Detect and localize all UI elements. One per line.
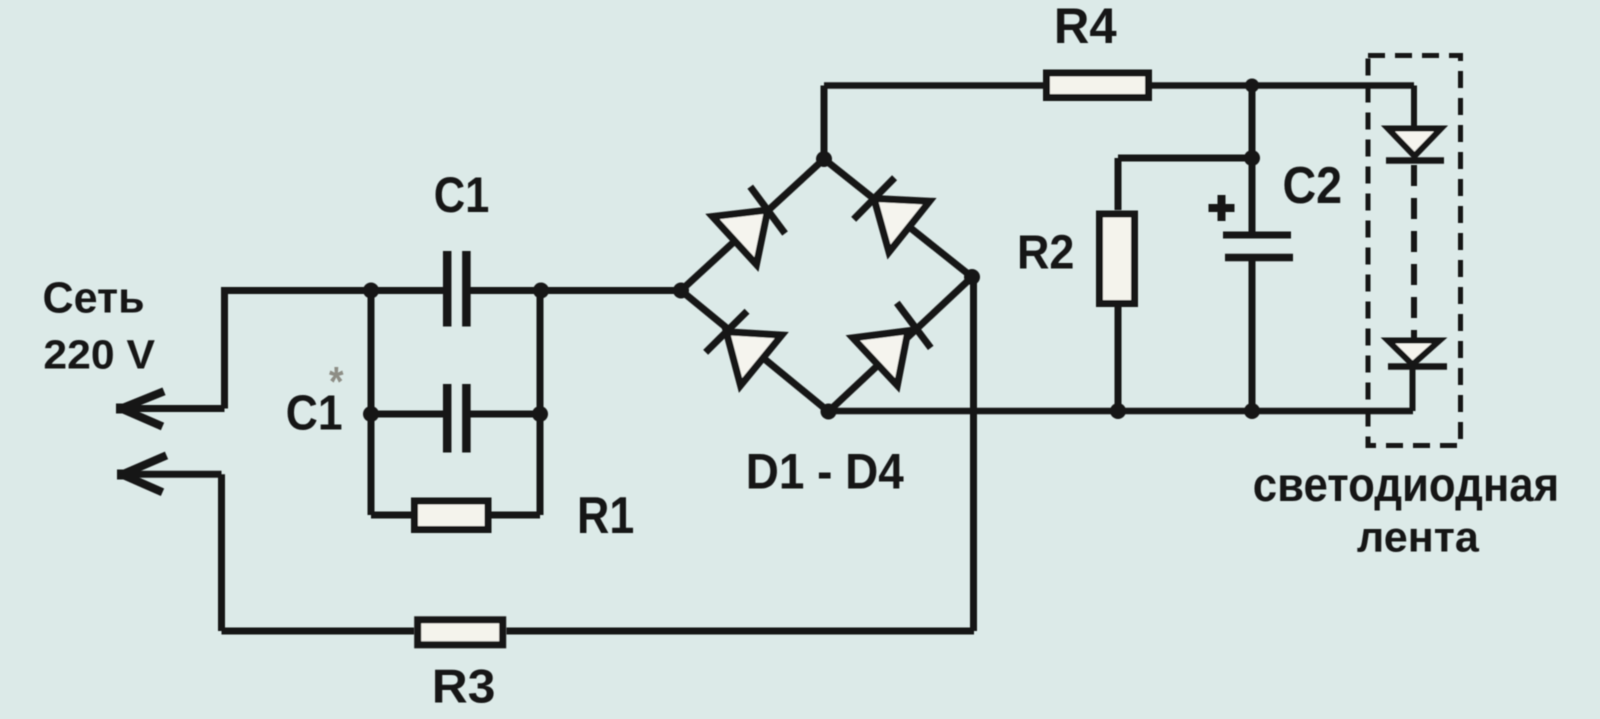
svg-text:R4: R4 (1054, 0, 1117, 54)
wire: C1 branch left vertical (368, 291, 375, 516)
node: C1 left junction (363, 283, 379, 299)
wire: R1 rail right (491, 512, 540, 519)
capacitor C1 (447, 251, 681, 327)
node: bridge top (816, 151, 832, 167)
svg-text:C1: C1 (434, 167, 490, 222)
node: bridge right (964, 269, 980, 285)
diode D4 bottom-right (853, 300, 938, 386)
svg-text:*: * (329, 359, 344, 405)
wire: C1 branch right vertical (537, 291, 544, 516)
svg-text:светодиодная: светодиодная (1253, 457, 1559, 511)
node: C1 right junction (533, 283, 549, 299)
wire: LED1 top lead (1411, 86, 1417, 129)
capacitor C2 (1223, 235, 1293, 258)
wire: lower-left vertical (218, 474, 225, 631)
wire: bridge edge left-top (681, 159, 824, 291)
node: C2 bottom junction (1244, 403, 1260, 419)
svg-text:220 V: 220 V (43, 331, 155, 377)
wire: C2 upper lead (1249, 86, 1256, 232)
arrow upper mains prong (120, 391, 164, 426)
wire: top-left rail to C1 (221, 287, 443, 294)
label Сеть 220 V (43, 274, 156, 377)
plus sign (1209, 195, 1235, 221)
diode D3 bottom-left (703, 305, 781, 386)
svg-text:D1 - D4: D1 - D4 (746, 445, 904, 500)
resistor R1 (415, 501, 489, 530)
wire: bottom rail right of R3 (507, 628, 975, 635)
node: C1* left junction (363, 406, 379, 422)
svg-text:C2: C2 (1283, 157, 1343, 215)
wire: C2 lower lead (1249, 261, 1256, 411)
node: C1* right junction (532, 406, 548, 422)
label LED strip (1253, 457, 1559, 561)
wire: bottom DC rail (829, 408, 1414, 415)
wire: R2 top link (1118, 158, 1252, 210)
LED strip dashed box (1368, 56, 1461, 446)
svg-text:лента: лента (1357, 514, 1480, 562)
wire: R1 rail left (371, 512, 411, 519)
arrow lower mains prong (121, 455, 167, 492)
wire: bridge edge top-right (824, 159, 972, 277)
wire: C1* middle rail left (371, 411, 443, 418)
resistor R2 (1100, 214, 1135, 304)
svg-text:R2: R2 (1017, 225, 1074, 279)
diode bridge wires (681, 159, 972, 412)
wire: dashed continuation (1411, 165, 1417, 338)
node: bridge left (673, 283, 689, 299)
wire: mains lower arrow lead (124, 471, 221, 478)
svg-text:R3: R3 (432, 661, 496, 714)
LED HL1 (1386, 129, 1444, 161)
node: top rail junction at C2 (1245, 79, 1259, 93)
resistor R3 (418, 620, 503, 645)
wire: AC right vertical (970, 277, 977, 631)
wire: mains upper arrow lead (124, 405, 225, 412)
node: R2 bottom junction (1110, 403, 1126, 419)
wire: top DC rail (824, 82, 1414, 89)
node: R2 top junction (1244, 150, 1260, 166)
wire: bridge top stub (821, 86, 828, 160)
wire: bridge edge right-bottom (829, 277, 973, 412)
LED HL2 (1388, 341, 1447, 367)
wire: LED2 bottom lead (1410, 367, 1416, 412)
diode D2 top-right (851, 171, 929, 252)
diode D1 top-left (713, 184, 792, 264)
wire: bridge edge left-bottom (681, 291, 829, 412)
wire: R2 bottom link (1115, 307, 1122, 411)
wire: bottom rail left of R3 (222, 628, 415, 635)
svg-text:Сеть: Сеть (43, 274, 145, 322)
resistor R4 (1047, 73, 1149, 98)
wire: upper-left vertical (221, 291, 228, 409)
capacitor C1* (447, 384, 540, 453)
node: bridge bottom (821, 404, 837, 420)
svg-text:R1: R1 (577, 487, 634, 545)
